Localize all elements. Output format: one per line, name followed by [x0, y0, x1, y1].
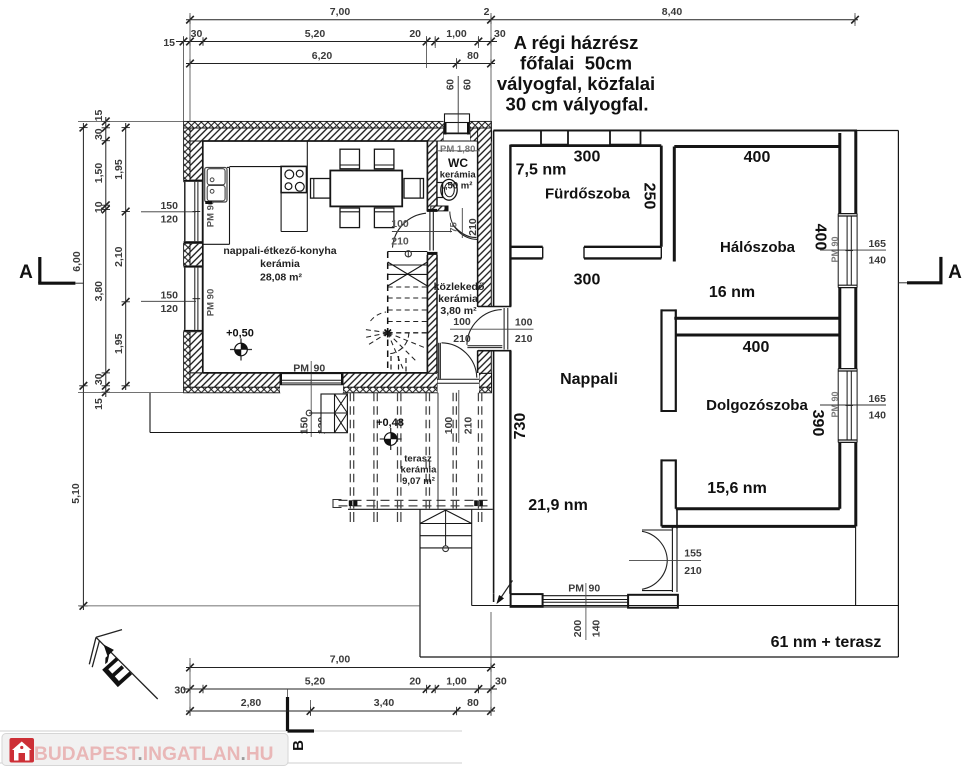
svg-text:kerámia: kerámia [440, 170, 477, 181]
svg-text:390: 390 [809, 410, 826, 437]
bottom window [543, 595, 629, 608]
PM 90 bottom window [568, 583, 600, 641]
right wall window [838, 369, 857, 443]
svg-text:15: 15 [93, 398, 105, 410]
svg-text:A régi házrész: A régi házrész [514, 32, 639, 53]
wall column west of haloszoba door [662, 309, 676, 412]
svg-text:9,07 m²: 9,07 m² [402, 476, 435, 487]
extension lines top dims [184, 13, 856, 130]
window2 leader + 150/120 labels [141, 290, 196, 316]
svg-text:PM 90: PM 90 [206, 289, 217, 316]
svg-text:WC: WC [448, 156, 468, 170]
dimension row bottom: 7,00 [186, 654, 495, 672]
dolgozo west wall column lower [662, 459, 676, 526]
WC south wall hatch + cap [431, 206, 448, 211]
WC window outside sill bump [445, 114, 470, 123]
extension lines left dims [78, 121, 420, 606]
svg-text:20: 20 [409, 676, 421, 688]
svg-text:1,00: 1,00 [446, 676, 467, 688]
WC west wall hatch [427, 141, 437, 211]
svg-text:250: 250 [641, 183, 658, 210]
entrance steps [306, 394, 347, 433]
right wall inner line [838, 133, 841, 509]
chair bottom 1 [340, 208, 360, 228]
svg-text:Fürdőszoba: Fürdőszoba [545, 186, 631, 203]
svg-text:60: 60 [446, 79, 457, 91]
dolgozoszoba texts [706, 339, 826, 497]
svg-text:2,80: 2,80 [241, 697, 262, 709]
west window [184, 266, 203, 332]
svg-text:6,00: 6,00 [71, 251, 83, 272]
old south wall checker [184, 387, 280, 393]
haloszoba texts [709, 149, 829, 301]
left dim line 6,00 + 5,10 [70, 123, 88, 610]
svg-text:A: A [19, 262, 33, 283]
old east face line [493, 131, 495, 594]
chair right [404, 179, 424, 199]
stair top edge + walkline circle [388, 251, 428, 257]
svg-text:400: 400 [744, 149, 771, 166]
svg-text:61 nm + terasz: 61 nm + terasz [771, 634, 882, 651]
new building top outline [493, 130, 857, 132]
svg-text:30: 30 [495, 676, 507, 688]
dimension row top: 6,20 / 80 [186, 50, 495, 68]
svg-text:150: 150 [299, 417, 311, 435]
svg-text:30: 30 [174, 685, 186, 697]
svg-text:8,40: 8,40 [662, 6, 683, 18]
svg-text:400: 400 [812, 224, 829, 251]
200/140 rotated labels [572, 620, 603, 638]
svg-text:kerámia: kerámia [438, 293, 478, 305]
stair winder center + radial dashed [366, 312, 427, 370]
east door leader [450, 328, 534, 330]
haloszoba west wall upper [673, 147, 676, 262]
svg-text:210: 210 [391, 236, 409, 248]
watermark text [34, 744, 274, 765]
155/210 labels [629, 548, 702, 578]
svg-text:15: 15 [93, 110, 105, 122]
svg-text:3,40: 3,40 [374, 697, 395, 709]
pillar 2 on top line [610, 131, 641, 145]
svg-text:90: 90 [589, 583, 601, 595]
watermark band [0, 731, 462, 766]
terasz room label [401, 454, 438, 488]
dining table [330, 171, 402, 207]
svg-text:B: B [290, 740, 307, 751]
svg-text:16 nm: 16 nm [709, 284, 755, 301]
north arrow [89, 630, 157, 699]
svg-text:210: 210 [515, 333, 533, 345]
old east wall hatch upper [478, 128, 492, 307]
svg-text:200: 200 [572, 620, 584, 638]
svg-text:165: 165 [868, 393, 886, 405]
door label 100/210 [391, 218, 452, 248]
svg-text:28,08 m²: 28,08 m² [260, 272, 303, 284]
dimension row bottom: 2,80/3,40/80 [186, 697, 495, 715]
window1 leader + 165/140 [820, 238, 886, 267]
svg-text:150: 150 [160, 290, 178, 302]
svg-text:300: 300 [574, 149, 601, 166]
svg-text:30 cm vályogfal.: 30 cm vályogfal. [506, 94, 649, 115]
right wall window [838, 214, 857, 288]
furdoszoba south wall w/ door gap [510, 247, 661, 259]
old west wall checker [184, 128, 190, 182]
svg-text:140: 140 [591, 620, 603, 638]
kitchen counter front edge [203, 167, 281, 245]
svg-text:közlekedő: közlekedő [434, 281, 485, 293]
WC interior outline [437, 141, 478, 211]
chair top 1 [340, 149, 360, 169]
150/120 south window rotated labels [299, 417, 329, 435]
terrace post markers right [474, 500, 483, 506]
chair left [311, 179, 331, 199]
west wall inner line (x=510) [509, 145, 511, 594]
south window [280, 373, 343, 393]
svg-text:+0,50: +0,50 [226, 328, 254, 340]
terrace bottom dashed beam [339, 500, 489, 506]
watermark house icon [10, 738, 35, 763]
haloszoba north wall [674, 145, 840, 148]
svg-text:7,00: 7,00 [330, 654, 351, 666]
garden stair [419, 509, 421, 657]
svg-text:210: 210 [684, 565, 702, 577]
svg-text:150: 150 [160, 200, 178, 212]
WC window glazing [444, 123, 470, 141]
svg-text:A: A [948, 262, 962, 283]
svg-text:21,9 nm: 21,9 nm [528, 497, 588, 514]
terrace bottom edge solid [348, 508, 493, 510]
level mark +0,50 [226, 328, 254, 361]
old building top wall hatch [190, 128, 444, 141]
thin line y=605.5 (outer face path) [472, 526, 899, 605]
bottom wall left block [511, 594, 543, 607]
svg-text:15,6 nm: 15,6 nm [707, 480, 767, 497]
svg-text:60: 60 [463, 79, 474, 91]
stair solid treads [388, 265, 428, 274]
svg-text:PM 90: PM 90 [830, 391, 840, 417]
east doorway caps [478, 307, 511, 351]
PM 90 south window label [293, 361, 325, 437]
section mark A left [19, 257, 84, 283]
svg-text:80: 80 [467, 697, 479, 709]
stair left edge heavy dashed [387, 252, 389, 374]
kitchen sink unit [205, 168, 227, 205]
interior outline old main room [203, 141, 428, 373]
svg-text:300: 300 [574, 272, 601, 289]
dimension 60|60 WC window [446, 76, 474, 133]
svg-text:1,95: 1,95 [113, 333, 125, 354]
svg-text:5,10: 5,10 [70, 483, 82, 504]
svg-text:Hálószoba: Hálószoba [720, 239, 796, 256]
svg-text:6,20: 6,20 [312, 50, 333, 62]
svg-text:PM 1,80: PM 1,80 [440, 144, 475, 155]
west window [184, 180, 203, 243]
svg-text:2,10: 2,10 [113, 246, 125, 267]
right wall outer line [854, 131, 857, 527]
dimension row top: 7,00 / 2 / 8,40 [186, 6, 859, 24]
svg-text:1,00: 1,00 [446, 28, 467, 40]
WC door labels 75/210 [449, 208, 480, 238]
svg-text:100: 100 [453, 316, 471, 328]
svg-text:100: 100 [391, 218, 409, 230]
svg-text:30: 30 [494, 28, 506, 40]
svg-text:120: 120 [160, 214, 178, 226]
east door open leaf + arc [467, 310, 502, 348]
section mark B bottom [288, 697, 315, 751]
left dim line 15/30/1,50/10/3,80/30/15 [93, 110, 110, 410]
dimension row bottom: 30/5,20/20/1,00/30 [174, 676, 507, 697]
left dim line 1,95/2,10/1,95 [113, 123, 130, 390]
svg-text:Dolgozószoba: Dolgozószoba [706, 397, 808, 414]
svg-text:7,5 nm: 7,5 nm [516, 162, 567, 179]
svg-text:kerámia: kerámia [401, 465, 438, 476]
haloszoba south wall [674, 317, 840, 320]
pillar 1 on top line [541, 131, 568, 145]
extension lines bottom dims [190, 612, 491, 716]
svg-text:730: 730 [512, 413, 529, 440]
chair bottom 2 [374, 208, 394, 228]
south door threshold [438, 373, 480, 393]
svg-text:140: 140 [868, 255, 886, 267]
svg-text:5,20: 5,20 [305, 28, 326, 40]
terrace corner bracket + post markers left [333, 500, 357, 508]
svg-text:30: 30 [93, 373, 105, 385]
svg-text:nappali-étkező-konyha: nappali-étkező-konyha [223, 245, 336, 257]
svg-text:80: 80 [467, 50, 479, 62]
svg-text:3,80: 3,80 [93, 281, 105, 302]
east door leaf (closed) [504, 308, 508, 350]
svg-text:Nappali: Nappali [560, 371, 618, 388]
site boundary right+bottom+top-right [420, 131, 898, 658]
dolgozoszoba north wall [676, 334, 840, 337]
svg-text:2: 2 [484, 6, 490, 18]
svg-text:140: 140 [868, 409, 886, 421]
WC door arc + leaf [450, 212, 478, 240]
stair dashed treads upper flight [388, 287, 428, 333]
old building top wall checker band [184, 121, 492, 128]
svg-text:terasz: terasz [404, 454, 432, 465]
terrace door jamb extension [437, 393, 439, 510]
svg-text:210: 210 [453, 333, 471, 345]
east door labels 100/210 left [453, 316, 471, 345]
svg-text:30: 30 [191, 28, 203, 40]
svg-text:főfalai 50cm: főfalai 50cm [520, 53, 632, 74]
nappali east wall (double door wall) [672, 509, 677, 529]
black caps nappali door jambs [427, 209, 437, 212]
kozlekedo interior lines [437, 211, 478, 373]
WC window white gap in top wall [444, 121, 470, 141]
svg-text:PM: PM [568, 583, 584, 595]
svg-text:+0,48: +0,48 [376, 417, 404, 429]
stove [281, 166, 306, 192]
svg-text:30: 30 [93, 128, 105, 140]
walkway corner below old building [472, 594, 512, 606]
svg-text:vályogfal, közfalai: vályogfal, közfalai [497, 73, 655, 94]
svg-text:210: 210 [467, 218, 479, 236]
double door to terrace: frame + leaves [642, 529, 677, 592]
dimension row top: 15/30/5,20/20/1,00/30 [163, 28, 506, 49]
svg-text:210: 210 [463, 417, 475, 435]
terrace level mark +0,48 [376, 417, 404, 450]
WC text PM 1,80 [437, 144, 480, 155]
svg-text:100: 100 [515, 317, 533, 329]
svg-text:400: 400 [743, 339, 770, 356]
section mark A right [899, 257, 963, 283]
svg-text:20: 20 [409, 28, 421, 40]
south door leaf+arc [439, 343, 477, 379]
window2 leader + 165/140 [820, 393, 886, 422]
svg-text:PM 90: PM 90 [830, 236, 840, 262]
bottom wall right block [628, 595, 678, 608]
dolgozoszoba south wall inner+outer [662, 509, 856, 527]
window1 leader + 150/120 labels [141, 200, 196, 226]
svg-text:10: 10 [93, 201, 105, 213]
counter below stove [281, 141, 307, 232]
kozlekedo room label [434, 281, 485, 317]
old east wall hatch lower [478, 351, 492, 374]
furdoszoba texts [516, 149, 658, 289]
SW corner arrow [497, 581, 513, 604]
svg-text:BUDAPEST.INGATLAN.HU: BUDAPEST.INGATLAN.HU [34, 744, 274, 765]
svg-text:1,95: 1,95 [113, 159, 125, 180]
svg-text:kerámia: kerámia [260, 258, 300, 270]
stair break diagonals [388, 262, 428, 286]
south door labels 100/210 [443, 390, 475, 443]
old west wall hatch [190, 141, 203, 180]
old south wall hatch [190, 373, 280, 387]
terrace dashed posts [350, 393, 482, 522]
svg-text:7,00: 7,00 [330, 6, 351, 18]
room label nappali-etkezo-konyha [223, 245, 336, 284]
south-east pier hatch+checker [479, 373, 492, 387]
stair lower flight dashed vertical treads [391, 356, 406, 373]
svg-text:155: 155 [684, 548, 702, 560]
svg-text:5,20: 5,20 [305, 676, 326, 688]
furdoszoba room outline [510, 146, 661, 247]
door old nappali to kozlekedo: leaf+arc [393, 211, 434, 250]
svg-text:120: 120 [160, 303, 178, 315]
entrance path outline [150, 393, 347, 433]
svg-text:165: 165 [868, 238, 886, 250]
svg-text:1,50: 1,50 [93, 163, 105, 184]
toilet [437, 179, 457, 200]
stair east wall hatch [427, 252, 437, 373]
east door labels 100/210 right [515, 317, 533, 346]
svg-text:15: 15 [163, 37, 175, 49]
note text: A regi hazresz fofalai 50cm valyogfal, kozfalai 30 cm valyogfal. [497, 32, 655, 115]
chair top 2 [374, 149, 394, 169]
